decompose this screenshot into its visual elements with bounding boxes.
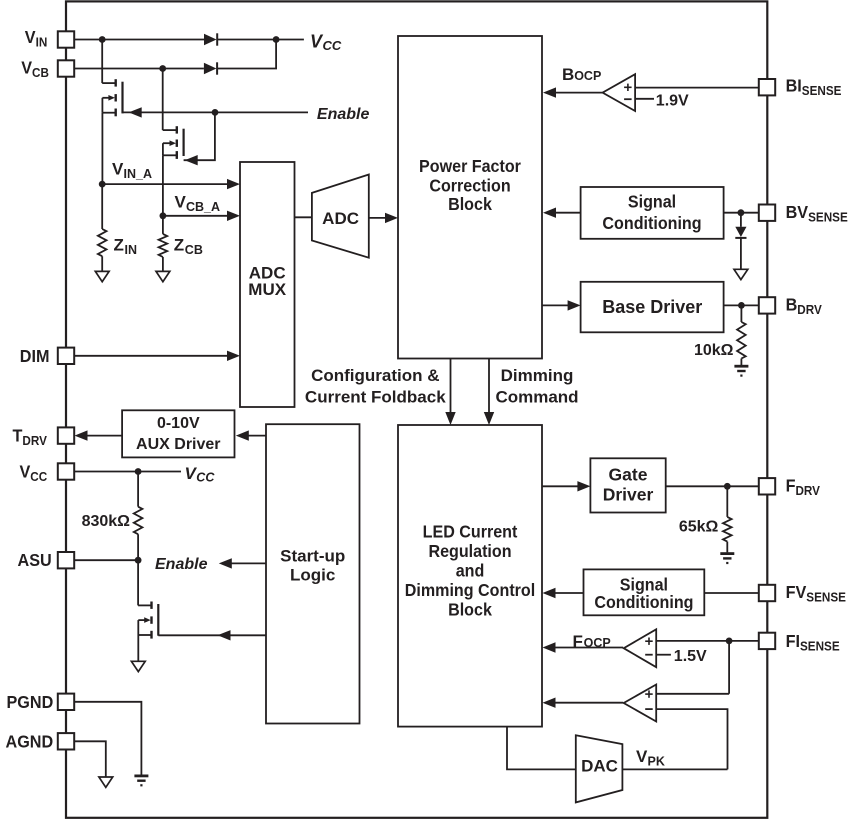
transistor Q1 gate bar: [121, 82, 123, 114]
svg-text:V: V: [112, 160, 124, 179]
svg-text:Block: Block: [448, 195, 492, 215]
svg-text:AGND: AGND: [6, 732, 54, 752]
transistor Q3 channel: [150, 602, 152, 609]
ADC converter U1 (trapezoid): [312, 175, 369, 258]
wire LED block to DAC: [507, 727, 576, 770]
svg-text:Gate: Gate: [609, 465, 648, 485]
wire LED block to Gate Driver: [542, 485, 578, 487]
arrowhead into Q3 gate: [218, 630, 231, 640]
wire Q1 drain from VIN node: [101, 40, 103, 84]
transistor Q2 drain stub: [163, 129, 177, 131]
svg-text:V: V: [636, 747, 648, 766]
wire D2 up to VCC rail: [218, 40, 276, 69]
pin PGND: [58, 694, 74, 710]
wire U4 - to 1.5V ref: [656, 654, 671, 656]
wire Q2 drain from VCB node: [162, 69, 164, 131]
transistor Q3 source stub: [138, 634, 151, 636]
svg-text:Command: Command: [495, 388, 578, 407]
wire FISENSE node to U5 +: [656, 641, 729, 694]
svg-text:F: F: [573, 632, 583, 651]
pin TDRV: [58, 427, 74, 443]
transistor Q2 channel: [176, 126, 178, 133]
svg-text:Start-up: Start-up: [280, 546, 345, 565]
svg-text:CC: CC: [196, 470, 215, 484]
ground (R1): [734, 365, 748, 368]
block: Signal Conditioning (upper): [581, 187, 724, 239]
pin FDRV: [759, 478, 775, 494]
svg-text:ASU: ASU: [18, 550, 52, 570]
pin BISENSE: [759, 79, 775, 95]
pin ASU: [58, 552, 74, 568]
wire Q2 gate to Enable rail: [184, 112, 215, 160]
wire Signal Conditioning to PFC: [556, 212, 581, 214]
wire PFC to Base Driver: [542, 304, 568, 306]
wire FVSENSE to Signal Conditioning: [704, 592, 759, 594]
wire Base Driver to BDRV pin: [724, 304, 759, 306]
wire PGND to ground: [74, 702, 141, 775]
wire Start-up Logic to AUX Driver: [248, 435, 266, 437]
wire ZIN to ground: [101, 256, 103, 271]
svg-text:MUX: MUX: [248, 280, 286, 299]
diode D1: [204, 34, 217, 46]
wire U3 - to 1.9V ref: [635, 98, 654, 100]
node BVSENSE junction: [738, 209, 745, 216]
transistor Q3 bulk tie: [137, 620, 139, 635]
svg-text:and: and: [456, 561, 485, 581]
resistor R2 65k: [723, 517, 732, 542]
svg-text:Driver: Driver: [603, 485, 654, 505]
arrowhead Enable into Q2 gate: [185, 155, 198, 165]
wire VCC node to R3: [137, 472, 139, 507]
wire R3 to ASU node: [137, 534, 139, 560]
pin FVSENSE: [759, 585, 775, 601]
node VCC rail junction: [273, 36, 280, 43]
wire AUX Driver to TDRV pin: [87, 435, 122, 437]
wire Q2 source down to VCB_A: [162, 155, 164, 216]
wire Q3 drain from ASU node: [137, 560, 139, 605]
wire ASU pin to node: [74, 559, 138, 561]
pin VIN: [58, 31, 74, 47]
svg-text:OCP: OCP: [574, 69, 601, 83]
svg-text:Z: Z: [174, 235, 184, 254]
transistor Q2 gate bar: [183, 129, 185, 156]
wire Dimming Command: [488, 359, 490, 414]
svg-text:Configuration &: Configuration &: [311, 366, 439, 385]
svg-text:Signal: Signal: [628, 192, 676, 212]
wire VIN pin to diode D1: [74, 39, 204, 41]
ground (ZCB): [156, 271, 170, 281]
arrowhead Enable into Q1 gate: [129, 107, 142, 117]
wire VCB_A down to ZCB: [162, 216, 164, 234]
wire Signal Conditioning to LED block: [556, 592, 584, 594]
ground (PGND): [134, 775, 148, 778]
svg-text:IN_A: IN_A: [124, 167, 152, 181]
node ASU junction: [135, 557, 142, 564]
svg-text:CC: CC: [323, 38, 342, 53]
resistor ZIN: [98, 229, 107, 256]
svg-text:IN: IN: [125, 243, 138, 257]
block: Signal Conditioning (lower): [584, 569, 705, 615]
pin FISENSE: [759, 633, 775, 649]
node FDRV junction: [724, 483, 731, 490]
wire U5 - to VPK: [656, 709, 727, 769]
svg-text:0-10V: 0-10V: [157, 415, 200, 432]
svg-text:Current Foldback: Current Foldback: [305, 388, 446, 407]
svg-text:830kΩ: 830kΩ: [82, 513, 131, 530]
wire D1 to VCC rail: [218, 39, 304, 41]
wire Gate Driver to FDRV pin: [666, 485, 759, 487]
comparator U3 (BOCP): [603, 74, 636, 111]
pin VCC: [58, 463, 74, 479]
wire DAC output VPK: [622, 768, 727, 770]
svg-text:65kΩ: 65kΩ: [679, 518, 719, 535]
svg-text:Conditioning: Conditioning: [594, 593, 693, 613]
svg-text:Correction: Correction: [429, 176, 510, 196]
resistor R3 830k: [134, 507, 143, 535]
ground (BVSENSE diode): [734, 269, 748, 279]
wire BVSENSE to Signal Conditioning: [724, 212, 759, 214]
wire FISENSE to U4 +: [656, 640, 759, 642]
wire Q3 gate from Start-up Logic: [158, 634, 266, 636]
svg-text:AUX Driver: AUX Driver: [136, 436, 220, 453]
node VIN_A: [99, 181, 106, 188]
resistor ZCB: [159, 234, 168, 257]
svg-text:Conditioning: Conditioning: [602, 214, 701, 234]
wire ZCB to ground: [162, 257, 164, 271]
block: LED Current Regulation and Dimming Control: [398, 425, 542, 727]
transistor Q1 drain stub: [102, 82, 116, 84]
svg-text:DAC: DAC: [581, 756, 618, 775]
wire U4 output to LED block (FOCP): [556, 647, 624, 649]
svg-text:DIM: DIM: [20, 346, 50, 366]
wire VIN_A to ADC MUX: [102, 183, 228, 185]
block: 0-10V AUX Driver: [122, 410, 234, 457]
comparator U4 (FOCP): [624, 629, 657, 667]
transistor Q3 bulk arrow: [138, 619, 145, 621]
block: ADC MUX: [240, 162, 295, 407]
svg-text:Logic: Logic: [290, 565, 335, 584]
svg-text:1.9V: 1.9V: [656, 92, 689, 109]
pin BDRV: [759, 297, 775, 313]
wire BDRV node to R1: [740, 305, 742, 322]
diode D3 (to ground): [735, 227, 746, 237]
node BDRV junction: [738, 302, 745, 309]
transistor Q1 source stub: [102, 112, 115, 114]
svg-text:OCP: OCP: [584, 636, 611, 650]
block: Gate Driver: [590, 458, 665, 512]
wire R1 to ground: [740, 359, 742, 366]
node FISENSE junction: [726, 638, 733, 645]
svg-text:Block: Block: [448, 600, 492, 620]
transistor Q2 source stub: [163, 154, 177, 156]
svg-text:V: V: [175, 193, 187, 212]
svg-text:LED Current: LED Current: [423, 522, 518, 542]
svg-text:Base Driver: Base Driver: [602, 297, 702, 317]
svg-text:CB_A: CB_A: [186, 200, 220, 214]
svg-text:PGND: PGND: [7, 692, 54, 712]
wire Enable rail: [123, 111, 309, 113]
svg-text:Regulation: Regulation: [428, 541, 511, 561]
wire VIN_A down to ZIN: [101, 184, 103, 229]
resistor R1 10k: [737, 322, 746, 359]
pin AGND: [58, 733, 74, 749]
svg-text:Dimming: Dimming: [501, 366, 574, 385]
wire VCC pin rail: [74, 471, 181, 473]
pin VCB: [58, 60, 74, 76]
wire R2 to ground: [726, 542, 728, 553]
svg-text:ADC: ADC: [322, 209, 359, 228]
transistor Q1 bulk tie: [101, 98, 103, 113]
svg-text:Dimming Control: Dimming Control: [405, 580, 535, 600]
wire Q1 source down to VIN_A: [101, 113, 103, 184]
node Enable rail junction: [212, 109, 219, 116]
transistor Q2 bulk arrow: [163, 142, 171, 144]
transistor Q3 gate bar: [157, 604, 159, 636]
ground (Q3 source): [131, 661, 145, 671]
comparator U5 (peak detect): [624, 685, 657, 722]
svg-text:10kΩ: 10kΩ: [694, 342, 734, 359]
wire BVSENSE node to diode D3: [740, 213, 742, 227]
transistor Q2 bulk tie: [162, 143, 164, 155]
node VIN junction: [99, 36, 106, 43]
svg-text:Power Factor: Power Factor: [419, 157, 521, 177]
wire VCB pin to diode D2: [74, 68, 204, 70]
node VCB junction: [159, 65, 166, 72]
block: Power Factor Correction: [398, 36, 542, 359]
wire VCB_A to ADC MUX: [163, 215, 228, 217]
wire Enable from Start-up Logic: [230, 562, 266, 564]
transistor Q1 bulk arrow: [102, 97, 109, 99]
wire Q3 source to ground: [137, 635, 139, 661]
svg-text:Z: Z: [114, 235, 124, 254]
wire D3 to ground: [740, 238, 742, 269]
transistor Q3 drain stub: [138, 604, 151, 606]
diode D2: [204, 63, 217, 75]
svg-text:PK: PK: [648, 754, 665, 768]
svg-text:B: B: [562, 65, 574, 84]
node VCC pin junction: [135, 468, 142, 475]
block: Base Driver: [581, 282, 724, 333]
svg-text:CB: CB: [185, 243, 203, 257]
wire DIM to ADC MUX: [74, 355, 228, 357]
svg-text:Enable: Enable: [155, 556, 208, 573]
block: Start-up Logic: [266, 424, 360, 723]
ground (ZIN): [95, 271, 109, 281]
ground (R2): [720, 552, 734, 555]
wire ADC to PFC block: [369, 217, 386, 219]
wire AGND to ground: [74, 741, 106, 777]
pin BVSENSE: [759, 205, 775, 221]
DAC converter U2 (trapezoid): [576, 735, 623, 802]
wire FDRV node to R2: [726, 486, 728, 517]
svg-text:Enable: Enable: [317, 106, 370, 123]
node VCB_A: [160, 212, 167, 219]
transistor Q1 channel: [114, 79, 116, 86]
wire U3 output to PFC (BOCP): [556, 92, 603, 94]
svg-text:1.5V: 1.5V: [674, 648, 707, 665]
wire Configuration & Current Foldback: [450, 359, 452, 414]
wire BISENSE to U3 +: [635, 87, 759, 89]
ground (AGND): [99, 777, 113, 787]
wire ADC MUX to ADC: [295, 216, 312, 218]
wire U5 output to LED block: [556, 702, 624, 704]
pin DIM: [58, 348, 74, 364]
